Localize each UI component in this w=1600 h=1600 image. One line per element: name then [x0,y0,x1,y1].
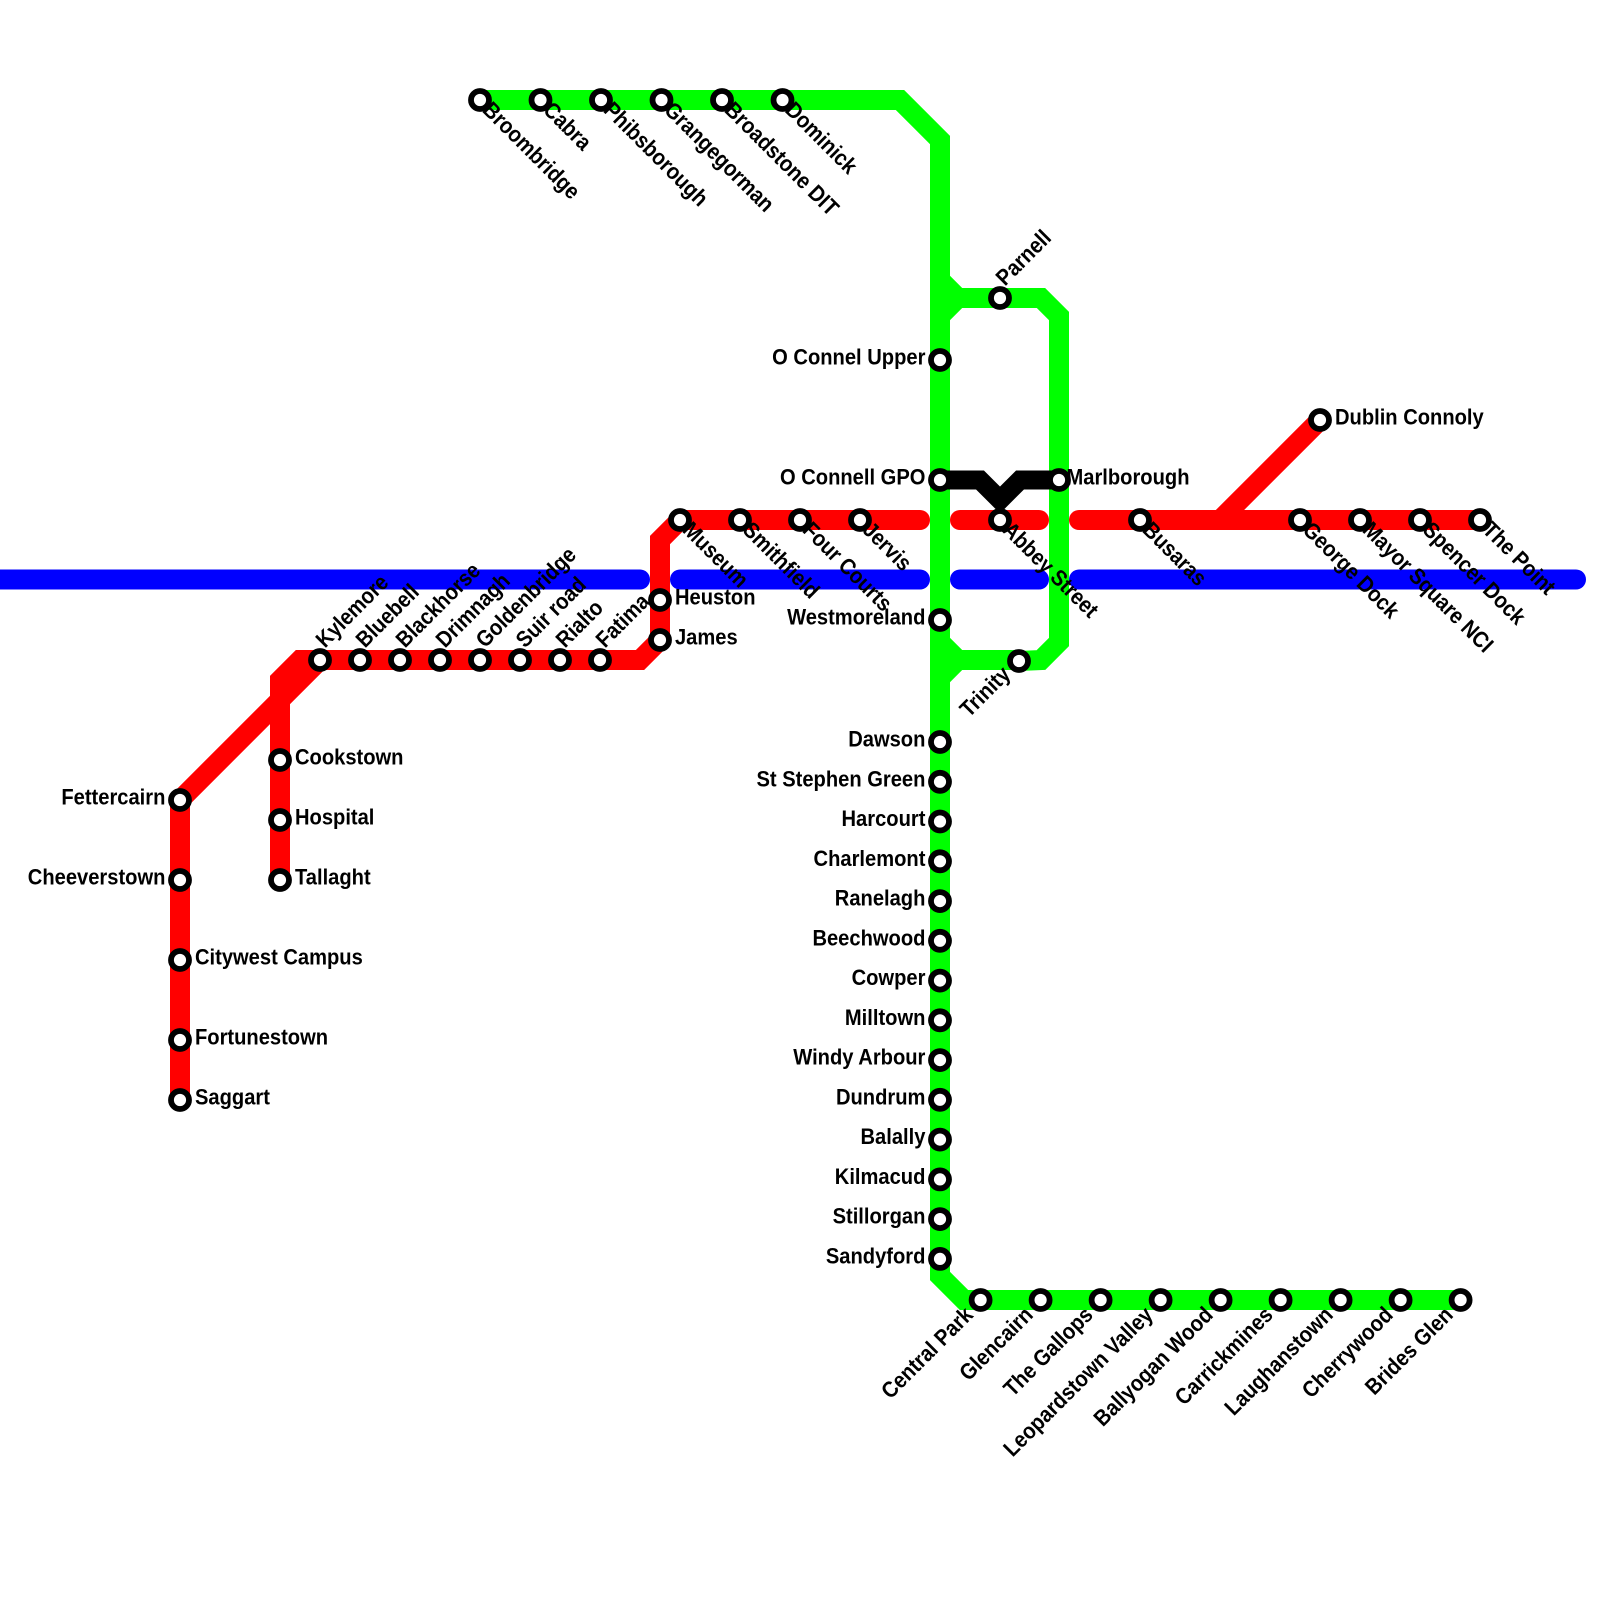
svg-text:James: James [675,624,738,649]
svg-text:Tallaght: Tallaght [295,864,371,889]
svg-text:Milltown: Milltown [845,1005,926,1030]
svg-text:Saggart: Saggart [195,1084,270,1109]
svg-text:Hospital: Hospital [295,804,374,829]
svg-text:Ranelagh: Ranelagh [835,886,926,911]
svg-text:Marlborough: Marlborough [1067,464,1190,489]
svg-text:Harcourt: Harcourt [842,806,926,831]
svg-text:O Connel Upper: O Connel Upper [772,344,925,369]
svg-text:O Connell GPO: O Connell GPO [780,464,925,489]
svg-text:Cookstown: Cookstown [295,744,403,769]
svg-text:Citywest Campus: Citywest Campus [195,944,363,969]
svg-text:Fettercairn: Fettercairn [61,784,165,809]
svg-text:Sandyford: Sandyford [826,1243,926,1268]
svg-text:Beechwood: Beechwood [812,925,925,950]
svg-text:Kilmacud: Kilmacud [835,1164,926,1189]
svg-text:Heuston: Heuston [675,584,756,609]
svg-text:Dundrum: Dundrum [836,1084,925,1109]
svg-text:Westmoreland: Westmoreland [787,604,925,629]
svg-text:Charlemont: Charlemont [814,846,926,871]
svg-text:Dawson: Dawson [848,726,925,751]
svg-text:Fortunestown: Fortunestown [195,1024,328,1049]
svg-text:Windy Arbour: Windy Arbour [793,1045,925,1070]
svg-text:Cowper: Cowper [852,965,926,990]
svg-text:Balally: Balally [860,1124,925,1149]
svg-text:Cheeverstown: Cheeverstown [28,864,166,889]
svg-text:St Stephen Green: St Stephen Green [756,766,925,791]
svg-text:Stillorgan: Stillorgan [833,1204,926,1229]
svg-text:Dublin Connoly: Dublin Connoly [1335,404,1484,429]
